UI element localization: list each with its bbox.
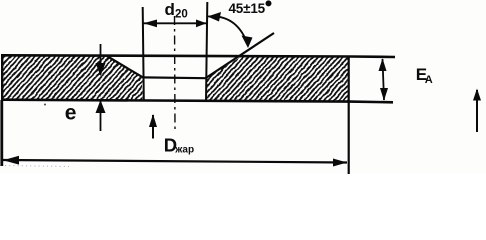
plate right edge + Dnar extension <box>348 56 350 175</box>
svg-text:жар: жар <box>174 145 194 156</box>
floating up arrow below hole <box>152 115 154 139</box>
left chamfer line <box>106 56 143 78</box>
scan noise speckles <box>44 104 46 106</box>
d20 left arrowhead <box>144 20 158 28</box>
svg-text:45±15: 45±15 <box>229 1 266 16</box>
d20 dimension line <box>144 22 207 24</box>
Dnar left arrowhead <box>3 156 19 165</box>
arc arrowhead at extension line <box>208 12 222 22</box>
Dnar dimension line <box>3 160 347 163</box>
arc arrowhead at chamfer line <box>242 36 253 49</box>
svg-text:20: 20 <box>175 9 188 21</box>
EA bottom arrowhead (down) <box>380 88 388 101</box>
left plate section (hatched) <box>2 55 143 100</box>
e dimension lower line <box>100 101 102 131</box>
far right up arrow <box>476 90 478 132</box>
countersink bottom edge (cone/cylinder junction, across hole) <box>143 76 207 79</box>
hole wall / d20 extension line, left <box>143 7 144 101</box>
centerline (dash-dot) <box>174 16 177 131</box>
hole wall / d20 extension line, right <box>206 2 207 101</box>
svg-text:d: d <box>165 0 175 19</box>
EA top arrowhead (up) <box>379 58 387 71</box>
svg-text:A: A <box>425 74 433 86</box>
e dimension upper line <box>100 44 102 75</box>
e lower arrowhead (up) <box>96 100 106 113</box>
right chamfer line + extension above surface <box>206 33 274 78</box>
EA dimension line <box>383 59 385 100</box>
plate left edge <box>1 54 3 101</box>
svg-text:e: e <box>65 102 77 125</box>
plate bottom edge <box>2 100 393 103</box>
right plate section (hatched) <box>206 56 349 102</box>
e upper arrowhead (down) <box>96 63 106 76</box>
d20 right arrowhead <box>196 20 207 28</box>
angle leader arc <box>208 16 248 45</box>
Dnar right arrowhead <box>333 159 347 167</box>
Dnar left extension line <box>0 100 3 166</box>
plate top edge <box>2 55 395 57</box>
